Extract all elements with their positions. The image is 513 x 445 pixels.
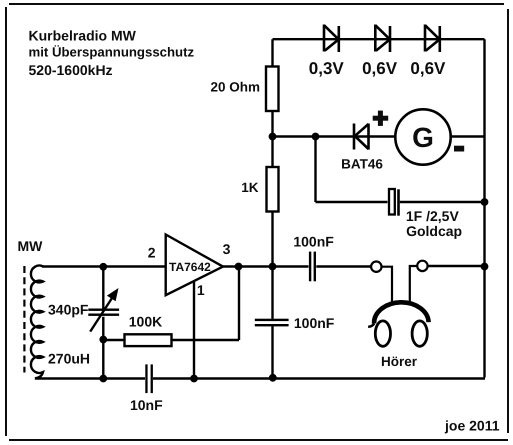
resistor 100K [125, 334, 172, 346]
svg-text:3: 3 [223, 241, 231, 257]
junction 1K signal [269, 263, 277, 271]
wire pin1 [193, 281, 195, 379]
junction bottom left [99, 375, 107, 383]
svg-text:1: 1 [197, 282, 205, 298]
wire meter line [273, 135, 485, 137]
junction output node [235, 263, 243, 271]
minus sign [454, 146, 464, 152]
svg-text:100K: 100K [129, 313, 162, 329]
generator meter G [395, 109, 450, 164]
junction varcap bottom [99, 336, 107, 344]
svg-text:TA7642: TA7642 [169, 260, 211, 274]
svg-text:joe 2011: joe 2011 [444, 417, 500, 433]
diode D2 [375, 25, 390, 53]
svg-text:100nF: 100nF [293, 233, 334, 249]
svg-text:0,6V: 0,6V [362, 59, 398, 78]
svg-text:2: 2 [148, 245, 156, 261]
plus sign [373, 111, 389, 126]
svg-text:0,3V: 0,3V [309, 59, 345, 78]
wire signal rail [42, 265, 485, 268]
ferrite rod dashed line [23, 266, 25, 373]
op-amp U1 TA7642 [166, 235, 223, 296]
capacitor goldcap 1F [389, 189, 400, 216]
svg-text:mit Überspannungsschutz: mit Überspannungsschutz [29, 44, 195, 59]
junction pin1 bottom [190, 375, 198, 383]
svg-text:Kurbelradio MW: Kurbelradio MW [29, 28, 137, 44]
svg-text:1K: 1K [241, 180, 259, 195]
junction 20ohm/meter [269, 133, 277, 141]
junction goldcap right [481, 198, 489, 206]
svg-text:100nF: 100nF [294, 315, 335, 331]
svg-text:10nF: 10nF [130, 397, 163, 413]
svg-text:520-1600kHz: 520-1600kHz [29, 62, 113, 78]
junction cap bottom [269, 374, 277, 382]
jack J2 [417, 261, 427, 271]
svg-text:1F /2,5V: 1F /2,5V [406, 208, 460, 224]
resistor 1K [267, 167, 279, 212]
resistor 20 Ohm [266, 67, 279, 112]
capacitor 100nF series [309, 252, 316, 282]
capacitor 10nF [145, 364, 153, 393]
wire headphone cable right [410, 266, 417, 304]
diode D3 [425, 25, 440, 53]
variable capacitor 340pF [88, 288, 119, 332]
junction goldcap top [312, 133, 320, 141]
svg-text:0,6V: 0,6V [410, 59, 446, 78]
jack J1 [371, 262, 381, 272]
headphones [368, 302, 429, 346]
svg-text:340pF: 340pF [48, 301, 89, 317]
wire headphone cable left [382, 267, 393, 304]
svg-text:20 Ohm: 20 Ohm [210, 80, 260, 95]
diode BAT46 [354, 124, 369, 150]
svg-text:Goldcap: Goldcap [406, 223, 462, 239]
diode D1 [324, 25, 339, 53]
junction signal right [481, 263, 489, 271]
label title [29, 28, 195, 79]
svg-text:BAT46: BAT46 [341, 156, 383, 171]
wire 100K feedback [103, 267, 239, 341]
svg-text:G: G [412, 122, 434, 153]
wire left branch vertical [271, 39, 273, 378]
wire right rail [483, 39, 485, 377]
wire bottom rail [35, 377, 485, 379]
svg-text:MW: MW [18, 238, 44, 254]
wire tuning branch [102, 267, 104, 379]
wire goldcap branch [316, 137, 485, 203]
capacitor 100nF shunt [255, 319, 289, 327]
svg-text:270uH: 270uH [48, 351, 90, 367]
wire top rail [273, 38, 485, 40]
junction varcap top [99, 263, 107, 271]
svg-text:Hörer: Hörer [381, 354, 418, 369]
inductor L1 270uH coil [31, 266, 43, 379]
